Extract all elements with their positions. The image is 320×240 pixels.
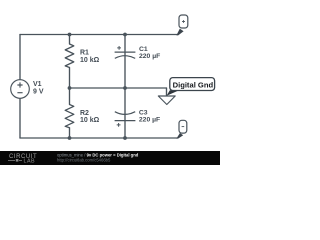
svg-text:9 V: 9 V [33, 88, 44, 95]
wire C3 vertical [124, 88, 126, 138]
svg-text:10 kΩ: 10 kΩ [80, 117, 100, 124]
svg-text:C3: C3 [139, 109, 148, 116]
wire R2 bottom lead [69, 128, 71, 138]
flag Digital Gnd [158, 78, 214, 105]
node junction dot C1 bottom [123, 86, 127, 90]
svg-text:10 kΩ: 10 kΩ [80, 57, 100, 64]
node junction dot R1 bottom [68, 86, 72, 90]
voltage source V1 label [33, 81, 44, 96]
watermark bottom bar [0, 151, 220, 165]
node junction dot R1 top [68, 33, 72, 37]
wire bottom bus [20, 137, 177, 139]
wire jog to ground flag [166, 88, 168, 96]
capacitor C3 label [139, 109, 160, 123]
resistor R2 label [80, 110, 100, 124]
CircuitLab logo [8, 154, 37, 165]
node junction dot R2 bottom [68, 136, 72, 140]
node junction dot C3 bottom [123, 136, 127, 140]
wire middle bus [70, 87, 167, 89]
wire left vertical top (V1 to top bus) [19, 35, 21, 80]
wire left vertical bottom (V1 to bottom bus) [19, 98, 21, 138]
svg-text:Digital Gnd: Digital Gnd [173, 80, 214, 89]
wire R1 top lead [69, 35, 71, 45]
capacitor C1 label [139, 46, 160, 60]
wire R2 top lead [69, 88, 71, 105]
wire R1 bottom lead [69, 68, 71, 89]
terminal + (top right) [176, 15, 187, 35]
voltage source V1 [11, 80, 30, 99]
resistor R2 [65, 105, 74, 128]
svg-text:C1: C1 [139, 46, 148, 53]
svg-text:220 µF: 220 µF [139, 53, 160, 60]
wire top bus [20, 34, 177, 36]
terminal - (bottom right) [176, 120, 186, 138]
resistor R1 label [80, 50, 100, 64]
svg-text:220 µF: 220 µF [139, 117, 160, 124]
svg-text:V1: V1 [33, 81, 42, 88]
capacitor C1 [115, 46, 136, 58]
wire C1 vertical [124, 35, 126, 89]
svg-text:R1: R1 [80, 50, 89, 57]
node junction dot C1 top [123, 33, 127, 37]
resistor R1 [65, 44, 74, 68]
svg-text:LAB: LAB [24, 158, 36, 164]
capacitor C3 [115, 112, 136, 127]
svg-text:http://circuitlab.com/c5466b5: http://circuitlab.com/c5466b5 [57, 158, 111, 163]
